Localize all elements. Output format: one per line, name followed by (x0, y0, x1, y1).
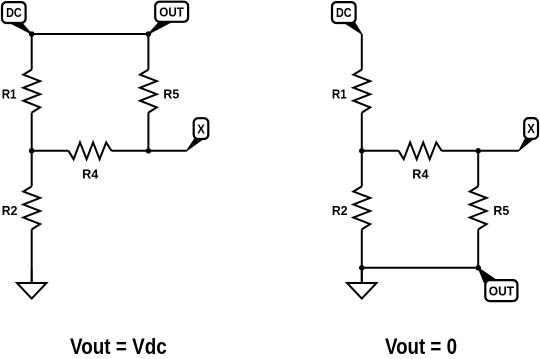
svg-text:R1: R1 (2, 87, 17, 102)
svg-text:DC: DC (336, 5, 352, 20)
svg-text:R2: R2 (2, 203, 18, 218)
svg-text:DC: DC (6, 5, 22, 20)
svg-text:R4: R4 (412, 166, 429, 181)
svg-text:X: X (527, 121, 535, 136)
svg-text:R5: R5 (493, 203, 509, 218)
svg-text:R2: R2 (332, 203, 348, 218)
svg-text:R5: R5 (163, 87, 179, 102)
svg-text:X: X (197, 121, 205, 136)
svg-text:R4: R4 (82, 166, 99, 181)
svg-text:OUT: OUT (489, 283, 514, 298)
svg-text:Vout = 0: Vout = 0 (385, 334, 457, 354)
svg-text:OUT: OUT (159, 5, 184, 20)
svg-text:Vout = Vdc: Vout = Vdc (70, 334, 167, 354)
svg-text:R1: R1 (332, 87, 347, 102)
